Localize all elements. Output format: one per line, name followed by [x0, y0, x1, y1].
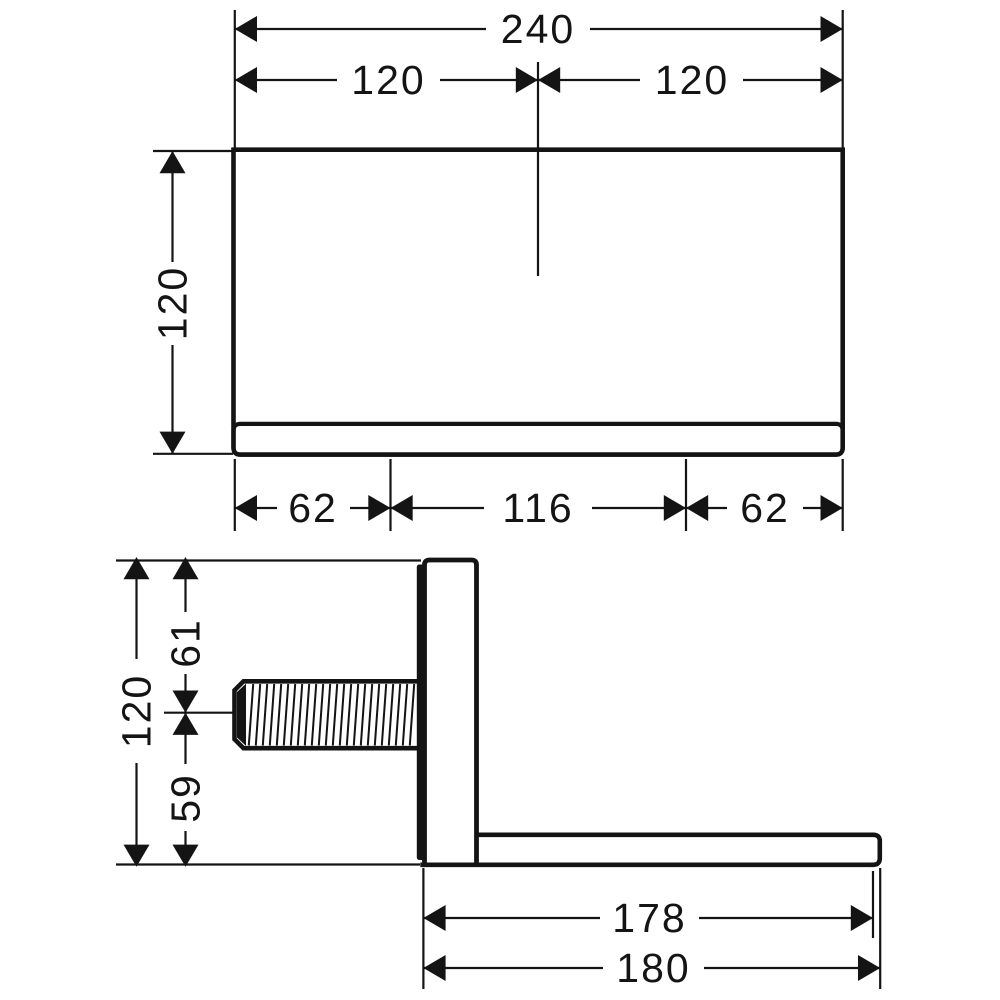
arrow side 120 top [124, 557, 150, 579]
extension line left (240/120 rows) [234, 10, 236, 149]
svg-text:180: 180 [616, 945, 690, 991]
arrow butterfly 61/59 lower [173, 713, 199, 735]
arrow butterfly at 390 right [391, 495, 413, 521]
arrow height top [160, 151, 186, 173]
arrow 180 right [858, 955, 880, 981]
svg-text:62: 62 [740, 485, 790, 531]
svg-text:240: 240 [501, 6, 575, 52]
side view: bracket body [425, 560, 477, 865]
extension line 116/62 [685, 459, 687, 531]
arrow butterfly at 686 right [686, 495, 708, 521]
arrow 240 left [235, 16, 257, 42]
dimension line 240 [235, 28, 843, 30]
arrow 240 right [821, 16, 843, 42]
dimension line 120 height (front view) [171, 151, 173, 454]
arrow 62R right [821, 495, 843, 521]
side view: threaded rod outline [235, 681, 421, 748]
arrow butterfly at 686 left [664, 495, 686, 521]
svg-text:116: 116 [502, 485, 573, 531]
extension line left height dim bottom [153, 453, 233, 455]
dimension line 120 (side view) [135, 561, 137, 865]
side view: bottom arm [420, 835, 880, 865]
arrow butterfly center left [516, 67, 538, 93]
dimension line 61/59 [184, 561, 186, 865]
extension line arm left (178/180) [422, 868, 424, 989]
arrow 62L left [235, 495, 257, 521]
extension line 62 right [842, 459, 844, 531]
extension line 180 right [879, 868, 881, 989]
arrow butterfly 61/59 upper [173, 691, 199, 713]
extension line right (240/120 rows) [842, 10, 844, 149]
arrow 61 top [173, 557, 199, 579]
svg-text:61: 61 [163, 618, 209, 668]
side view: rod end cap [237, 684, 246, 746]
front view: shelf outline [234, 150, 843, 455]
svg-text:59: 59 [163, 773, 209, 823]
svg-text:120: 120 [114, 674, 160, 748]
extension line rod axis [164, 712, 233, 714]
svg-text:178: 178 [612, 895, 686, 941]
svg-text:120: 120 [150, 266, 196, 340]
extension line side top [116, 559, 421, 561]
front view: vertical centerline [537, 62, 539, 276]
dimension line 180 [423, 967, 880, 969]
arrow 178 right [851, 905, 873, 931]
svg-text:120: 120 [655, 57, 729, 103]
extension line side bottom [116, 863, 420, 865]
side view: rod thread hatching [249, 684, 414, 746]
arrow side 120 bottom [124, 845, 150, 867]
svg-text:120: 120 [351, 57, 425, 103]
extension line 178 right [872, 871, 874, 938]
arrow 180 left [423, 955, 445, 981]
arrow butterfly center right [538, 67, 560, 93]
arrow 178 left [423, 905, 445, 931]
side view: wall plate strip [417, 565, 425, 861]
arrow 120 right end [821, 67, 843, 93]
extension line left height dim top [153, 150, 233, 152]
svg-text:62: 62 [288, 485, 338, 531]
arrow 120 left end [235, 67, 257, 93]
arrow 59 bottom [173, 845, 199, 867]
arrow height bottom [160, 432, 186, 454]
extension line 62/116 [389, 459, 391, 531]
extension line 62 left [234, 459, 236, 531]
arrow butterfly at 390 left [368, 495, 390, 521]
dimension line 120/120 [235, 79, 843, 81]
dimension line 178 [423, 917, 873, 919]
dimension line 62/116/62 [235, 507, 843, 509]
front view: bottom rail [234, 424, 843, 455]
